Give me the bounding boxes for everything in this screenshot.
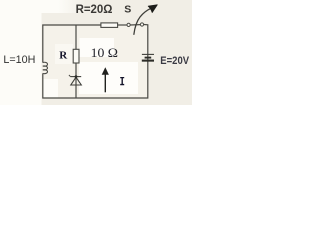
- svg-text:L=10H: L=10H: [3, 54, 35, 66]
- svg-text:E=20V: E=20V: [160, 55, 190, 67]
- svg-text:R: R: [59, 49, 68, 61]
- svg-text:R=20Ω: R=20Ω: [76, 2, 113, 16]
- svg-text:10 Ω: 10 Ω: [91, 45, 118, 60]
- svg-text:S: S: [124, 3, 131, 15]
